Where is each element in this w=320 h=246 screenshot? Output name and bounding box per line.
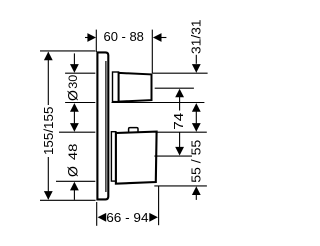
Ø30 bottom extension line right (under handle) xyxy=(112,102,205,104)
plate inner step line xyxy=(105,61,107,192)
155/155 top arrow xyxy=(44,52,53,61)
31/31 dim line xyxy=(195,55,197,64)
Ø48 top extension line xyxy=(59,131,95,133)
svg-text:66 - 94: 66 - 94 xyxy=(106,210,148,225)
Ø30 bottom extension line left xyxy=(65,102,95,104)
bottom handle centerline stub xyxy=(154,155,192,157)
chain line between Ø30 and Ø48 xyxy=(73,111,75,123)
74 top arrow xyxy=(175,89,184,98)
svg-text:155/155: 155/155 xyxy=(41,107,56,156)
155/155 top extension line xyxy=(40,50,95,52)
top handle centerline stub xyxy=(155,87,194,89)
Ø48 top arrow (outside) xyxy=(70,123,79,132)
svg-text:74: 74 xyxy=(171,113,186,130)
60-88 left arrow xyxy=(87,33,96,42)
bottom handle (volume grip) xyxy=(116,132,157,184)
60-88 left extension line (plate back) xyxy=(95,30,97,52)
155/155 dim line lower xyxy=(47,157,49,199)
svg-text:31/31: 31/31 xyxy=(189,19,204,54)
31/31 arrow xyxy=(192,64,201,73)
svg-text:48: 48 xyxy=(67,144,80,161)
bottom handle bottom extension line (right) xyxy=(154,185,207,187)
55/55 bottom arrow (outside) xyxy=(192,186,201,195)
top handle (thermostat grip) xyxy=(119,73,152,102)
top handle top extension line (right) xyxy=(152,72,207,74)
Ø48 bottom arrow (outside) xyxy=(70,182,79,191)
Ø30 upper outside stub xyxy=(73,53,75,65)
74 dim line upper xyxy=(179,96,181,110)
svg-text:Ø: Ø xyxy=(64,166,80,177)
31-chain down arrow xyxy=(192,123,201,132)
svg-text:55 / 55: 55 / 55 xyxy=(189,140,204,183)
31-chain up arrow xyxy=(192,103,201,112)
155/155 bottom arrow xyxy=(44,191,53,200)
Ø48 lower outside stub xyxy=(73,190,75,200)
155/155 bottom extension line xyxy=(40,199,96,201)
74 bottom arrow xyxy=(175,147,184,156)
74 dim line lower xyxy=(179,132,181,148)
31-chain line xyxy=(195,111,197,123)
60-88 right extension line (handle front) xyxy=(151,30,153,74)
svg-text:30: 30 xyxy=(67,75,80,89)
Ø30 top extension line xyxy=(65,72,95,74)
svg-text:Ø: Ø xyxy=(64,90,80,101)
Ø30 bottom arrow (outside) xyxy=(70,103,79,112)
svg-text:60 - 88: 60 - 88 xyxy=(104,29,144,44)
bottom handle tab xyxy=(129,128,138,134)
Ø30 top arrow (outside) xyxy=(70,64,79,73)
60-88 left stub xyxy=(85,37,89,39)
66-94 right arrow xyxy=(149,213,158,222)
bottom handle collar xyxy=(111,132,116,181)
155/155 dim line upper xyxy=(47,52,49,105)
Ø48 bottom extension line xyxy=(56,180,95,182)
top handle collar xyxy=(113,72,119,102)
66-94 right extension line xyxy=(158,186,160,225)
60-88 right stub xyxy=(160,37,167,39)
66-94 left arrow xyxy=(98,213,107,222)
escutcheon plate (side view) xyxy=(97,52,108,199)
bottom handle top extension line (right) xyxy=(157,131,207,133)
66-94 left extension line xyxy=(96,202,98,226)
55/55 lower outside stub xyxy=(195,194,197,200)
60-88 right arrow xyxy=(153,33,162,42)
